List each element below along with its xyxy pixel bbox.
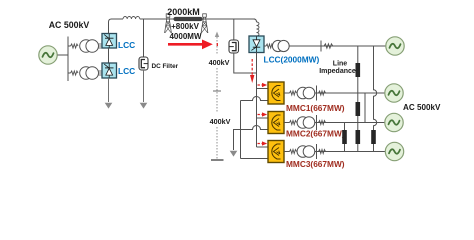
wire V1 to V2	[108, 48, 110, 63]
MMC2 DC- wire with hop	[234, 126, 269, 151]
squiggle row A2	[71, 71, 79, 75]
generator G0	[39, 46, 57, 64]
svg-text:400kV: 400kV	[209, 58, 230, 67]
red arrow into MMC3	[258, 141, 268, 145]
row3 squiggle a	[284, 121, 297, 125]
row2 wire	[314, 92, 385, 94]
transformer T6	[272, 40, 289, 51]
DC line left segment	[111, 18, 123, 20]
generator G4	[385, 142, 403, 160]
transformer T3	[297, 87, 315, 99]
red fault arrow down	[250, 59, 254, 83]
row3 squiggle b	[319, 121, 326, 125]
impedance Z3	[356, 130, 361, 144]
svg-text:DC Filter: DC Filter	[152, 63, 179, 70]
MMC1 converter	[268, 82, 284, 104]
bundle T2 to V2	[98, 71, 102, 75]
measure line 800/400kV	[216, 34, 218, 160]
squiggle row A1	[71, 44, 79, 48]
branch to DC filter F1	[143, 19, 145, 57]
svg-text:+800kV: +800kV	[171, 22, 199, 31]
transformer T2	[80, 67, 99, 80]
svg-text:AC 500kV: AC 500kV	[403, 103, 441, 112]
stub to MMC2	[257, 117, 269, 119]
svg-text:LCC(2000MW): LCC(2000MW)	[264, 54, 320, 64]
branch to DC filter F2	[233, 19, 235, 40]
measure top arrow	[215, 32, 219, 38]
LCC valve V2	[102, 63, 117, 78]
breaker tick row3	[316, 115, 318, 130]
svg-text:400kV: 400kV	[210, 117, 231, 126]
wire G0 to bus	[58, 54, 69, 56]
wire V2 to ground	[108, 78, 110, 102]
svg-text:Impedance: Impedance	[319, 68, 356, 75]
row4 squiggle a	[284, 150, 297, 154]
measure mid tick	[213, 90, 221, 92]
column x344.5	[344, 123, 346, 152]
breaker tick row1	[320, 41, 322, 52]
tower TW1	[165, 14, 172, 33]
red dash on measure line	[217, 43, 218, 46]
DC- bus	[240, 101, 242, 159]
svg-text:LCC: LCC	[118, 40, 135, 50]
impedance Z2	[356, 102, 361, 116]
stub to MMC1	[257, 88, 269, 90]
svg-text:MMC3(667MW): MMC3(667MW)	[286, 159, 345, 169]
column x365	[364, 93, 366, 123]
row1 wire	[289, 45, 385, 47]
svg-text:MMC2(667MW): MMC2(667MW)	[286, 129, 345, 139]
generator G3	[385, 113, 403, 131]
column x373.5 with hops	[374, 46, 377, 152]
ground arrow GA3	[230, 151, 238, 157]
bundle T1 to V1	[98, 44, 102, 48]
squiggle row1	[264, 44, 273, 48]
ground arrow GA1	[105, 103, 113, 109]
MMC3 converter	[268, 141, 284, 163]
svg-text:Line: Line	[333, 60, 347, 67]
generator G2	[385, 84, 403, 102]
row4 wire	[314, 151, 385, 153]
generator G1	[386, 37, 404, 55]
LCC valve V3 (receiving)	[249, 36, 264, 53]
impedance Z5	[342, 130, 347, 144]
impedance Z1	[356, 63, 361, 77]
LCC valve V1	[102, 34, 117, 49]
wire bus to T2	[68, 72, 71, 74]
row4 squiggle b	[319, 150, 326, 154]
row3 wire	[314, 122, 384, 124]
riser V1 to DC line	[109, 19, 112, 34]
row2 squiggle a	[284, 91, 297, 95]
MMC2 converter	[268, 112, 284, 134]
bus (sending)	[67, 37, 69, 82]
DC filter F2	[229, 40, 239, 53]
stub to MMC3	[257, 146, 269, 148]
impedance column x357	[357, 46, 359, 152]
red arrow into MMC2	[258, 112, 268, 116]
corner + reactor L2	[254, 19, 257, 22]
wire bus to T1	[68, 45, 71, 47]
MMC3 DC- wire	[241, 158, 269, 160]
measure bottom bar	[211, 159, 224, 161]
transformer T1	[80, 40, 99, 53]
breaker tick row2	[316, 86, 318, 101]
svg-text:AC 500kV: AC 500kV	[49, 20, 90, 30]
svg-text:LCC: LCC	[118, 66, 135, 76]
DC+ bus (receiving)	[256, 53, 258, 148]
MMC1 DC- wire with hop	[241, 97, 269, 101]
DC line bar	[176, 17, 201, 21]
svg-text:4000MW: 4000MW	[169, 32, 201, 41]
breaker tick row4	[316, 144, 318, 159]
wire F1 to ground	[143, 70, 145, 102]
svg-text:MMC1(667MW): MMC1(667MW)	[286, 103, 345, 113]
row2 squiggle b	[319, 91, 326, 95]
tower TW2	[201, 14, 208, 33]
smoothing reactor L1	[123, 16, 140, 19]
DC line to towers	[140, 18, 255, 20]
wire F2 to mid node	[234, 53, 257, 73]
squiggle row1 b	[324, 44, 333, 48]
DC filter F1	[139, 57, 148, 70]
svg-text:2000kM: 2000kM	[167, 7, 200, 17]
power flow arrow	[168, 40, 213, 50]
ground arrow GA2	[140, 103, 148, 109]
transformer T5	[297, 146, 315, 158]
transformer T4	[297, 117, 315, 129]
impedance Z4	[371, 130, 376, 144]
red arrow into MMC1	[258, 83, 268, 87]
